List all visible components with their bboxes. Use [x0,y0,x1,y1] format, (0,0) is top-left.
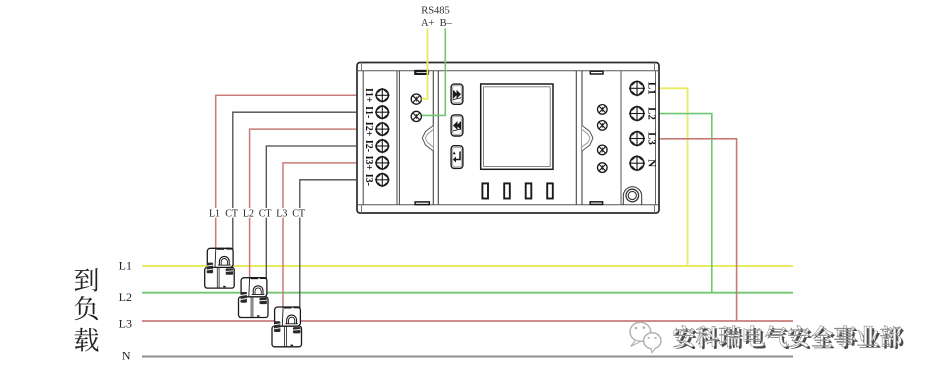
right terminal strip edge [620,71,622,205]
RS485 terminal screw A+ [411,94,421,104]
LCD display [481,84,553,169]
wire bus L3 (red phase line) [142,320,793,322]
wire RS485 A+ (yellow) [422,29,428,99]
svg-text:L2: L2 [119,290,132,304]
svg-text:I2-: I2- [363,140,374,152]
svg-text:RS485: RS485 [421,6,450,17]
watermark wechat logo [630,322,661,352]
left terminal block edges [363,71,399,205]
svg-text:I3+: I3+ [363,156,374,171]
svg-text:I1-: I1- [363,106,374,118]
terminal screw I1- [375,105,390,120]
svg-text:A+: A+ [421,18,435,29]
wire CT secondary I3+ (red) [283,163,356,311]
terminal screw L3 [629,131,645,147]
svg-text:L3: L3 [646,132,658,145]
indicator mark 4 [547,183,553,198]
wire bus N (neutral line) [142,356,793,358]
svg-text:CT: CT [292,209,305,220]
terminal screw L2 [629,106,645,122]
terminal screw I3+ [375,156,390,171]
svg-text:B–: B– [440,18,453,29]
wire bus L2 (green phase line) [142,292,793,294]
sealing screw in dome housing [623,187,641,205]
wire meter L3 to bus (red) [659,139,737,321]
svg-text:L3: L3 [276,209,287,220]
release clip left cover [422,126,433,152]
DIN clip tab left-top (dark) [415,71,428,74]
RS485 terminal screw B- [411,111,421,121]
wire CT secondary I1+ (red) [216,95,356,252]
cover screw 4 [598,163,608,173]
DIN clip tab left-bottom [415,202,429,205]
terminal screw I2+ [375,122,390,137]
DIN clip tab right-top [590,71,603,74]
svg-text:L1: L1 [209,209,220,220]
svg-text:L2: L2 [243,209,254,220]
CT wire labels row [206,208,308,218]
wire CT secondary I2+ (red) [250,129,356,281]
indicator mark 3 [526,183,532,198]
current transformer CT3 [272,306,302,346]
band corner notches [362,63,655,214]
button up (scroll) [451,84,463,104]
svg-text:L1: L1 [646,82,658,95]
svg-text:L1: L1 [119,259,132,273]
svg-text:I1+: I1+ [363,88,374,103]
terminal screw I3- [375,173,390,188]
svg-text:CT: CT [259,209,272,220]
current transformer CT2 [239,277,269,317]
svg-text:I3-: I3- [363,174,374,186]
right cover separator [576,71,582,205]
indicator mark 1 [482,183,488,198]
wire CT secondary I2- (dark) [266,146,356,283]
current transformer CT1 [205,248,235,288]
cover screw 2 [598,121,608,131]
svg-text:I2+: I2+ [363,122,374,137]
release clip right cover [582,126,593,152]
wire meter L1 to bus (yellow) [659,88,688,266]
wire CT secondary I1- (dark) [233,112,356,253]
svg-text:N: N [646,159,658,167]
wire CT secondary I3- (dark) [300,180,356,312]
meter U1 outer body [357,63,659,214]
svg-text:L2: L2 [646,107,658,120]
meter bottom band line [357,204,659,206]
watermark text 安科瑞电气安全事业部 [673,326,904,350]
button down (scroll) [451,115,463,136]
right inner edge line [655,71,657,205]
cover screw 3 [598,145,608,155]
terminal screw L1 [629,80,645,96]
svg-text:CT: CT [225,209,238,220]
meter top band line [357,70,659,72]
terminal screw I1+ [375,88,390,103]
wire RS485 B- (green) [422,29,445,116]
button enter [451,146,463,169]
cover screw 1 [598,105,608,115]
left cover separator [433,71,438,205]
wire bus L1 (yellow phase line) [142,265,793,267]
DIN clip tab right-bottom [590,202,602,205]
indicator mark 2 [504,183,510,198]
terminal screw I2- [375,139,390,154]
svg-text:L3: L3 [119,317,132,331]
svg-text:N: N [122,349,131,363]
wire meter L2 to bus (green) [659,114,712,293]
label 到负载 (to load) [74,268,98,351]
terminal screw N [629,155,645,171]
